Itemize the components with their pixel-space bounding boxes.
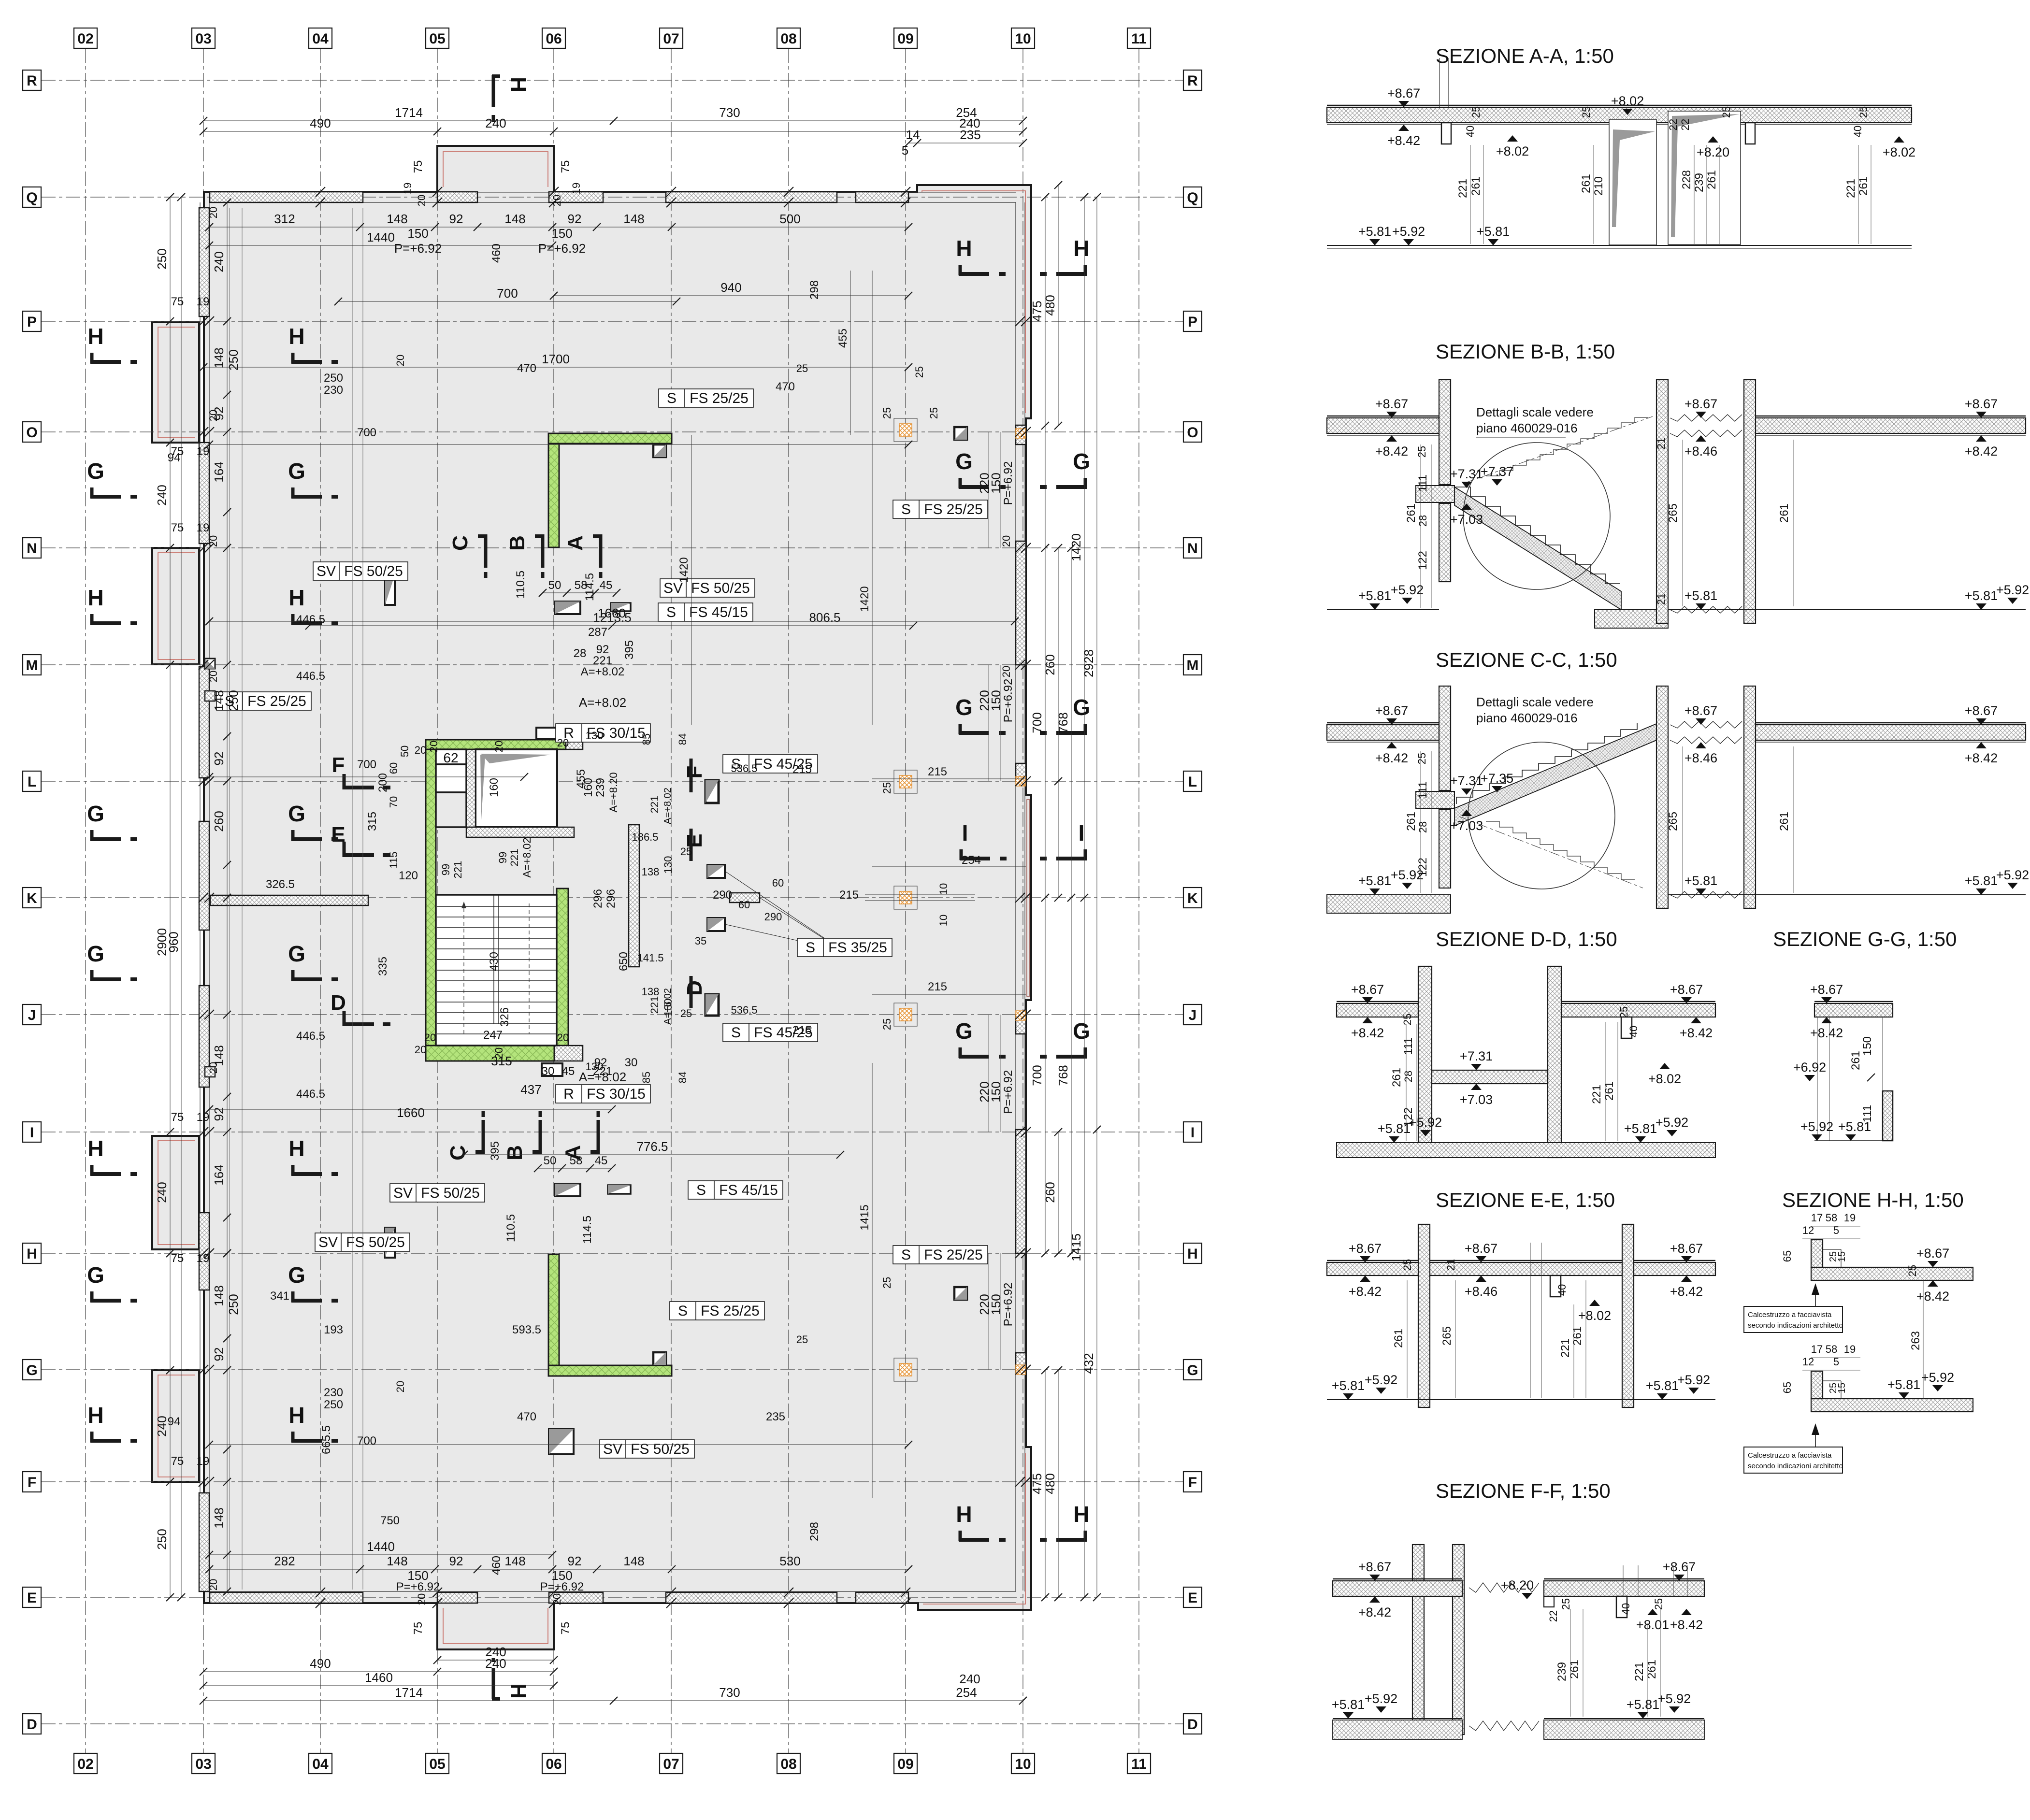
svg-text:536.5: 536.5 <box>731 1004 757 1016</box>
section H-H lower detail <box>1811 1399 1973 1412</box>
svg-text:17: 17 <box>1811 1212 1823 1224</box>
svg-text:150: 150 <box>407 226 428 241</box>
svg-text:490: 490 <box>310 116 331 130</box>
svg-text:P: P <box>1188 314 1197 330</box>
section A-A wall lines left <box>1439 58 1440 107</box>
svg-text:19: 19 <box>402 183 414 194</box>
section C-C detail circle <box>1468 742 1615 889</box>
svg-text:221: 221 <box>1844 179 1857 198</box>
svg-text:290: 290 <box>764 911 782 923</box>
svg-text:60: 60 <box>738 899 750 911</box>
section E-E thin verticals <box>1530 1243 1531 1398</box>
svg-text:150: 150 <box>1861 1036 1874 1056</box>
svg-text:+8.42: +8.42 <box>1387 133 1420 148</box>
svg-text:17: 17 <box>1811 1343 1823 1355</box>
svg-text:230: 230 <box>324 1386 343 1399</box>
svg-text:FS 50/25: FS 50/25 <box>421 1185 480 1201</box>
svg-text:75: 75 <box>171 521 184 534</box>
svg-text:SV: SV <box>317 563 336 579</box>
structural grid lines <box>85 48 86 1754</box>
svg-text:+8.42: +8.42 <box>1680 1026 1713 1040</box>
section G-G slab <box>1814 1003 1893 1017</box>
svg-text:SEZIONE F-F, 1:50: SEZIONE F-F, 1:50 <box>1436 1479 1611 1502</box>
svg-text:40: 40 <box>1464 126 1476 137</box>
svg-text:45: 45 <box>600 579 613 592</box>
svg-text:130: 130 <box>662 856 674 874</box>
svg-text:250: 250 <box>324 1398 343 1411</box>
svg-text:122: 122 <box>1416 551 1429 570</box>
svg-text:J: J <box>1189 1007 1197 1023</box>
svg-text:122: 122 <box>1416 858 1429 877</box>
label S FS 45/25 <box>723 755 818 773</box>
svg-text:148: 148 <box>623 1554 644 1568</box>
svg-text:S: S <box>901 502 911 517</box>
svg-text:261: 261 <box>1857 176 1870 196</box>
section C-C mid walls <box>1656 686 1668 908</box>
svg-text:S: S <box>696 1182 706 1198</box>
svg-text:240: 240 <box>155 485 169 505</box>
svg-text:150: 150 <box>989 1294 1003 1315</box>
section B-B stair dashed upper flight <box>1486 417 1648 476</box>
svg-text:L: L <box>1188 774 1197 790</box>
section G-G levels <box>1821 997 1832 1003</box>
svg-text:secondo indicazioni architetto: secondo indicazioni architetto <box>1748 1462 1843 1470</box>
svg-text:240: 240 <box>155 1416 169 1436</box>
svg-text:05: 05 <box>429 31 445 47</box>
svg-text:115: 115 <box>388 851 400 868</box>
svg-text:25: 25 <box>1720 106 1732 118</box>
svg-text:150: 150 <box>989 690 1003 711</box>
svg-text:R: R <box>27 73 37 89</box>
label SV FS 50/25 <box>313 562 408 580</box>
svg-text:138: 138 <box>642 986 660 998</box>
svg-text:G: G <box>955 1018 973 1044</box>
svg-text:250: 250 <box>155 1529 169 1549</box>
svg-text:+8.42: +8.42 <box>1916 1289 1949 1304</box>
svg-text:02: 02 <box>77 31 93 47</box>
core small rooms <box>436 749 466 764</box>
svg-text:261: 261 <box>1469 176 1483 196</box>
svg-text:665.5: 665.5 <box>320 1425 333 1454</box>
svg-text:21: 21 <box>1655 593 1667 605</box>
svg-text:50: 50 <box>548 579 561 592</box>
svg-text:H: H <box>956 1502 972 1527</box>
svg-text:+8.67: +8.67 <box>1684 397 1717 411</box>
svg-text:08: 08 <box>780 1756 796 1772</box>
svg-text:+8.02: +8.02 <box>1648 1072 1681 1086</box>
svg-text:08: 08 <box>780 31 796 47</box>
section C-C dashed lower flight <box>1486 821 1635 879</box>
green L-wall upper (row O / col 06) <box>548 433 672 444</box>
svg-text:395: 395 <box>623 640 636 659</box>
section B-B mid walls <box>1656 380 1668 623</box>
svg-text:806.5: 806.5 <box>809 610 840 625</box>
section G-G wall lower <box>1883 1091 1893 1141</box>
svg-text:G: G <box>288 941 305 966</box>
svg-text:160: 160 <box>582 778 595 797</box>
svg-text:480: 480 <box>1043 1473 1057 1494</box>
svg-text:+5.92: +5.92 <box>1392 224 1425 239</box>
svg-text:+8.42: +8.42 <box>1375 444 1408 459</box>
svg-text:G: G <box>955 695 973 720</box>
svg-text:1420: 1420 <box>858 586 871 612</box>
svg-text:700: 700 <box>357 758 376 771</box>
svg-text:H: H <box>87 1136 103 1161</box>
svg-text:G: G <box>955 449 973 474</box>
svg-text:85: 85 <box>640 1072 652 1083</box>
section H-H note boxes <box>1744 1306 1843 1333</box>
svg-text:28: 28 <box>1417 515 1429 527</box>
svg-text:265: 265 <box>1440 1326 1454 1346</box>
svg-text:G: G <box>1187 1362 1198 1378</box>
svg-text:150: 150 <box>989 1081 1003 1102</box>
svg-text:+8.42: +8.42 <box>1965 751 1998 765</box>
hatched wall segments bottom <box>210 1592 363 1603</box>
svg-text:21: 21 <box>1655 438 1667 449</box>
core stub top <box>536 728 558 739</box>
svg-text:768: 768 <box>1056 1065 1070 1086</box>
svg-text:221: 221 <box>648 996 661 1014</box>
svg-text:94: 94 <box>168 451 181 464</box>
label S FS 45/15 <box>658 603 753 621</box>
svg-text:215: 215 <box>928 980 947 993</box>
svg-text:Dettagli scale vedere: Dettagli scale vedere <box>1476 695 1594 709</box>
svg-text:221: 221 <box>648 796 661 814</box>
svg-text:110.5: 110.5 <box>504 1214 518 1242</box>
svg-text:FS 50/25: FS 50/25 <box>691 580 750 596</box>
svg-text:25: 25 <box>1906 1265 1918 1276</box>
svg-text:240: 240 <box>959 1672 980 1686</box>
svg-text:50: 50 <box>544 1154 557 1167</box>
inner top dim chains <box>209 227 908 228</box>
svg-text:L: L <box>28 774 36 790</box>
svg-text:Calcestruzzo a facciavista: Calcestruzzo a facciavista <box>1748 1311 1832 1319</box>
svg-text:193: 193 <box>324 1323 343 1336</box>
svg-text:H: H <box>288 324 304 349</box>
svg-text:H: H <box>87 324 103 349</box>
svg-text:470: 470 <box>517 362 536 375</box>
svg-text:FS 25/25: FS 25/25 <box>924 502 983 517</box>
svg-text:Calcestruzzo a facciavista: Calcestruzzo a facciavista <box>1748 1451 1832 1460</box>
svg-text:60: 60 <box>772 877 784 889</box>
svg-text:H: H <box>1073 236 1089 261</box>
svg-text:04: 04 <box>312 31 329 47</box>
svg-text:+5.92: +5.92 <box>1996 868 2029 882</box>
svg-text:+5.81: +5.81 <box>1684 874 1717 888</box>
svg-text:239: 239 <box>594 778 607 797</box>
svg-text:750: 750 <box>380 1514 400 1527</box>
svg-text:S: S <box>667 390 677 406</box>
svg-text:+8.42: +8.42 <box>1351 1026 1384 1040</box>
section F-F levels <box>1369 1575 1380 1581</box>
svg-text:261: 261 <box>1405 812 1418 831</box>
svg-text:75: 75 <box>171 1455 184 1468</box>
svg-text:58: 58 <box>575 579 588 592</box>
section A-A door panels <box>1609 119 1656 245</box>
svg-text:FS 45/15: FS 45/15 <box>719 1182 778 1198</box>
section F-F beam drops <box>1544 1596 1554 1607</box>
svg-text:341: 341 <box>270 1290 289 1303</box>
svg-text:secondo indicazioni architetto: secondo indicazioni architetto <box>1748 1321 1843 1330</box>
svg-text:O: O <box>26 425 37 441</box>
svg-text:92: 92 <box>568 1554 582 1568</box>
svg-text:+8.67: +8.67 <box>1375 397 1408 411</box>
section E-E levels <box>1360 1256 1370 1262</box>
svg-text:261: 261 <box>1405 503 1418 523</box>
svg-text:40: 40 <box>1627 1026 1640 1037</box>
svg-text:20: 20 <box>557 1032 569 1044</box>
svg-text:221: 221 <box>1590 1085 1603 1104</box>
svg-text:164: 164 <box>212 1164 226 1185</box>
svg-text:+8.42: +8.42 <box>1810 1026 1843 1040</box>
svg-text:+8.46: +8.46 <box>1684 751 1717 765</box>
label S FS 35/25 <box>797 938 892 957</box>
svg-text:141.5: 141.5 <box>637 952 663 964</box>
svg-text:H: H <box>506 77 530 92</box>
svg-text:700: 700 <box>357 426 376 439</box>
grid bubbles bottom <box>74 1753 97 1774</box>
svg-text:298: 298 <box>808 280 821 300</box>
section F-F bottom bands <box>1333 1718 1462 1719</box>
label SV FS 50/25 <box>660 579 755 597</box>
svg-text:92: 92 <box>449 212 463 226</box>
svg-text:148: 148 <box>212 1507 226 1528</box>
svg-text:22: 22 <box>1547 1610 1559 1622</box>
svg-text:H: H <box>956 236 972 261</box>
svg-text:235: 235 <box>766 1410 785 1423</box>
svg-text:+8.02: +8.02 <box>1496 144 1529 158</box>
svg-text:446.5: 446.5 <box>296 1088 325 1101</box>
stub at M row left <box>205 659 215 669</box>
svg-text:122: 122 <box>1402 1107 1415 1127</box>
svg-text:480: 480 <box>1043 295 1057 315</box>
svg-text:G: G <box>1073 695 1090 720</box>
section H-H vertical dim <box>1923 1280 1924 1399</box>
svg-text:148: 148 <box>504 1554 525 1568</box>
left outer dimension lines <box>170 197 171 665</box>
svg-text:2928: 2928 <box>1081 649 1096 677</box>
svg-text:160: 160 <box>488 778 501 797</box>
svg-text:+5.81: +5.81 <box>1332 1697 1365 1712</box>
svg-text:R: R <box>563 1086 574 1102</box>
section F-F slab <box>1333 1581 1462 1596</box>
SV marker rect top <box>555 602 580 614</box>
svg-text:FS 50/25: FS 50/25 <box>344 563 403 579</box>
svg-text:M: M <box>26 658 38 674</box>
svg-text:A=+8.20: A=+8.20 <box>607 772 619 812</box>
grid bubbles right <box>1183 70 1202 90</box>
svg-text:19: 19 <box>197 445 210 458</box>
svg-text:I: I <box>962 820 968 846</box>
svg-text:10: 10 <box>1015 31 1031 47</box>
svg-text:263: 263 <box>1909 1331 1922 1350</box>
svg-text:H: H <box>288 1136 304 1161</box>
bottom outer dimension chains <box>437 1660 554 1661</box>
section C-C left wall <box>1439 686 1451 790</box>
section C-C levels <box>1386 718 1397 725</box>
svg-text:260: 260 <box>212 811 226 831</box>
svg-text:FS 45/15: FS 45/15 <box>689 604 748 620</box>
svg-text:SEZIONE H-H, 1:50: SEZIONE H-H, 1:50 <box>1782 1189 1964 1211</box>
section B-B levels <box>1386 412 1397 418</box>
svg-text:+5.92: +5.92 <box>1677 1373 1710 1387</box>
svg-text:265: 265 <box>1667 503 1680 523</box>
svg-text:20: 20 <box>394 355 406 366</box>
svg-text:261: 261 <box>1390 1068 1403 1087</box>
svg-text:04: 04 <box>312 1756 329 1772</box>
svg-text:186.5: 186.5 <box>632 831 658 843</box>
svg-text:19: 19 <box>1844 1212 1856 1224</box>
svg-text:+7.37: +7.37 <box>1481 464 1513 479</box>
svg-text:25: 25 <box>928 407 940 419</box>
svg-text:09: 09 <box>897 31 913 47</box>
svg-text:326: 326 <box>498 1007 511 1027</box>
svg-text:15: 15 <box>1837 1251 1847 1262</box>
svg-text:75: 75 <box>171 1111 184 1124</box>
svg-text:+5.92: +5.92 <box>1658 1691 1691 1706</box>
left balcony box P-O <box>152 322 199 443</box>
svg-text:700: 700 <box>357 1434 376 1447</box>
svg-text:A=+8.02: A=+8.02 <box>521 837 533 877</box>
svg-text:35: 35 <box>695 935 706 947</box>
svg-text:+8.67: +8.67 <box>1663 1560 1696 1574</box>
svg-text:5: 5 <box>902 143 908 158</box>
svg-text:19: 19 <box>197 295 210 308</box>
inner bottom dim chains <box>209 1569 908 1570</box>
svg-text:Q: Q <box>26 190 37 206</box>
svg-text:730: 730 <box>719 1685 740 1700</box>
svg-text:07: 07 <box>663 1756 679 1772</box>
svg-text:+7.35: +7.35 <box>1481 771 1513 786</box>
svg-text:22: 22 <box>1679 119 1691 130</box>
K row marker lines <box>865 894 975 895</box>
section D-D bottom band <box>1337 1143 1715 1158</box>
svg-text:+8.67: +8.67 <box>1684 703 1717 718</box>
svg-text:G: G <box>1073 1018 1090 1044</box>
svg-text:G: G <box>87 941 104 966</box>
svg-text:475: 475 <box>1030 1473 1044 1494</box>
svg-text:1440: 1440 <box>367 1539 395 1554</box>
svg-text:215: 215 <box>792 763 812 776</box>
svg-text:+8.02: +8.02 <box>1578 1308 1611 1323</box>
elevator arrow <box>481 754 551 763</box>
svg-text:111: 111 <box>1861 1105 1874 1122</box>
red inner line bottom bump <box>443 1608 548 1644</box>
svg-text:D: D <box>27 1717 37 1733</box>
svg-text:768: 768 <box>1056 712 1070 733</box>
svg-text:215: 215 <box>839 889 859 902</box>
svg-text:10: 10 <box>937 915 950 926</box>
leader lines to S FS 35/25 <box>725 871 843 951</box>
SV bar top <box>385 575 395 605</box>
svg-text:SV: SV <box>603 1441 622 1457</box>
svg-text:+5.81: +5.81 <box>1358 224 1391 239</box>
svg-text:A=+8.02: A=+8.02 <box>662 788 673 824</box>
section C-C stair flight up <box>1454 724 1656 826</box>
section H-H leader arrows <box>1815 1286 1816 1319</box>
svg-text:H: H <box>288 585 304 610</box>
svg-text:+8.46: +8.46 <box>1684 444 1717 459</box>
section A-A slab <box>1327 107 1912 123</box>
svg-text:240: 240 <box>212 251 226 272</box>
svg-text:D: D <box>683 980 706 996</box>
svg-text:05: 05 <box>429 1756 445 1772</box>
svg-text:1440: 1440 <box>367 230 395 244</box>
section D-D beam drop <box>1621 1017 1632 1038</box>
svg-text:SEZIONE C-C, 1:50: SEZIONE C-C, 1:50 <box>1436 648 1617 671</box>
section A-A beam drops <box>1441 123 1451 144</box>
svg-text:+8.67: +8.67 <box>1375 703 1408 718</box>
svg-text:25: 25 <box>1580 106 1592 118</box>
svg-text:40: 40 <box>1620 1603 1632 1615</box>
svg-text:312: 312 <box>274 212 295 226</box>
svg-text:58: 58 <box>570 1154 583 1167</box>
svg-text:150: 150 <box>551 226 572 241</box>
svg-text:700: 700 <box>497 286 518 301</box>
section C-C bottoms <box>1327 894 1439 895</box>
svg-text:460: 460 <box>490 1556 503 1575</box>
svg-text:261: 261 <box>1778 812 1791 831</box>
label S FS 25/25 <box>893 1246 988 1264</box>
section E-E walls <box>1418 1224 1430 1407</box>
svg-text:I: I <box>1191 1125 1195 1141</box>
svg-text:+5.92: +5.92 <box>1391 583 1424 597</box>
svg-text:62: 62 <box>443 750 458 765</box>
long thin verticals mid-plan <box>872 271 873 725</box>
svg-text:I: I <box>1079 820 1085 846</box>
svg-text:164: 164 <box>212 461 226 482</box>
svg-text:+8.20: +8.20 <box>1697 145 1729 159</box>
svg-text:92: 92 <box>568 212 582 226</box>
svg-text:G: G <box>288 1262 305 1288</box>
svg-text:Dettagli scale vedere: Dettagli scale vedere <box>1476 405 1594 419</box>
svg-text:SEZIONE D-D, 1:50: SEZIONE D-D, 1:50 <box>1436 928 1617 950</box>
svg-text:1660: 1660 <box>598 606 626 620</box>
svg-text:261: 261 <box>1849 1051 1862 1070</box>
svg-text:200: 200 <box>376 773 389 792</box>
svg-text:265: 265 <box>1667 812 1680 831</box>
svg-text:11: 11 <box>1131 31 1147 47</box>
svg-text:138: 138 <box>642 866 660 878</box>
svg-text:1415: 1415 <box>1069 1233 1083 1261</box>
svg-text:20: 20 <box>207 1579 219 1591</box>
red inner line middle right bay <box>1027 800 1030 996</box>
svg-text:700: 700 <box>1030 712 1044 733</box>
svg-text:06: 06 <box>546 1756 561 1772</box>
svg-text:960: 960 <box>166 931 181 952</box>
svg-text:M: M <box>1187 658 1199 674</box>
svg-text:240: 240 <box>485 1656 506 1671</box>
red inner line bottom right bay <box>923 1453 1025 1604</box>
section A-A bottom lines <box>1327 245 1912 246</box>
svg-text:Q: Q <box>1187 190 1198 206</box>
svg-text:148: 148 <box>387 1554 407 1568</box>
svg-text:500: 500 <box>779 212 800 226</box>
core top wall gray continuation <box>566 740 583 749</box>
svg-text:SEZIONE G-G, 1:50: SEZIONE G-G, 1:50 <box>1773 928 1957 950</box>
svg-text:P=+6.92: P=+6.92 <box>1002 1070 1015 1114</box>
svg-text:+5.92: +5.92 <box>1800 1119 1833 1134</box>
svg-text:446.5: 446.5 <box>296 670 325 683</box>
svg-text:30: 30 <box>625 1056 638 1069</box>
core mid hatched band <box>466 827 574 837</box>
svg-text:20: 20 <box>416 195 428 206</box>
svg-text:+8.67: +8.67 <box>1670 982 1703 997</box>
svg-text:25: 25 <box>881 782 893 794</box>
svg-text:250: 250 <box>226 690 241 711</box>
svg-text:+8.42: +8.42 <box>1670 1284 1703 1299</box>
svg-text:75: 75 <box>559 1622 572 1635</box>
